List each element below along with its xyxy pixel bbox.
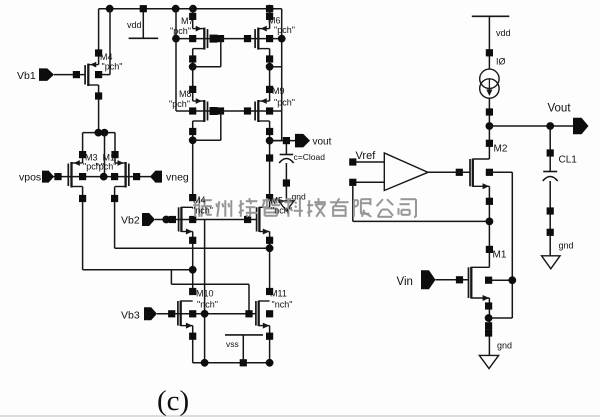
svg-text:M6: M6 xyxy=(268,16,281,26)
svg-text:Vref: Vref xyxy=(356,150,377,162)
svg-text:c=Cload: c=Cload xyxy=(294,152,326,162)
svg-text:IØ: IØ xyxy=(496,57,506,67)
svg-text:Vb1: Vb1 xyxy=(17,70,36,82)
svg-text:vss: vss xyxy=(226,339,239,349)
svg-text:gnd: gnd xyxy=(497,341,512,351)
svg-text:M9: M9 xyxy=(272,86,285,96)
svg-text:M8: M8 xyxy=(179,89,192,99)
svg-text:"pch": "pch" xyxy=(96,162,117,172)
svg-text:"pch": "pch" xyxy=(274,25,295,35)
svg-text:gnd: gnd xyxy=(559,241,574,251)
svg-text:M5: M5 xyxy=(271,196,284,206)
svg-text:Vin: Vin xyxy=(397,276,413,288)
svg-text:Vout: Vout xyxy=(548,103,572,115)
svg-text:vdd: vdd xyxy=(127,20,142,30)
svg-text:vout: vout xyxy=(313,137,332,148)
svg-text:M4: M4 xyxy=(100,52,113,62)
svg-text:"pch": "pch" xyxy=(169,99,190,109)
svg-text:"pch": "pch" xyxy=(274,98,295,108)
svg-text:"nch": "nch" xyxy=(197,300,218,310)
svg-text:"nch": "nch" xyxy=(272,300,293,310)
svg-text:"pch": "pch" xyxy=(170,26,191,36)
svg-text:(c): (c) xyxy=(157,385,189,417)
svg-text:vdd: vdd xyxy=(496,28,511,38)
svg-text:"nch": "nch" xyxy=(192,206,213,216)
svg-text:vneg: vneg xyxy=(166,172,189,184)
svg-text:"nch": "nch" xyxy=(271,206,292,216)
svg-text:gnd: gnd xyxy=(292,192,306,202)
svg-text:M7: M7 xyxy=(181,16,194,26)
svg-text:vpos: vpos xyxy=(19,172,41,184)
svg-text:M2: M2 xyxy=(494,144,508,155)
svg-text:M11: M11 xyxy=(270,289,287,299)
svg-text:Vb3: Vb3 xyxy=(121,310,140,322)
svg-text:M10: M10 xyxy=(196,289,214,299)
svg-text:"pch": "pch" xyxy=(102,62,123,72)
svg-text:M1: M1 xyxy=(493,250,507,261)
svg-text:M4: M4 xyxy=(193,195,206,205)
svg-text:Vb2: Vb2 xyxy=(121,215,140,227)
svg-text:CL1: CL1 xyxy=(559,155,578,166)
